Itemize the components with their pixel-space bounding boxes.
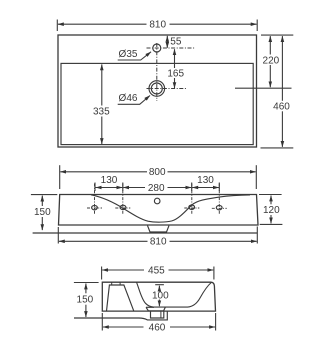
svg-text:165: 165: [167, 69, 184, 80]
label Ø35 leader underline: [118, 52, 151, 60]
dim 460 side: right extension line: [215, 313, 217, 331]
drain outer circle: [149, 81, 165, 97]
dim 455: left line with arrow: [102, 269, 144, 271]
mounting hole 1 ellipse: [92, 205, 98, 209]
tailpipe inner wall: [160, 311, 162, 318]
dim 810 top: left line with arrow: [58, 23, 147, 25]
dim 460 side: left line with arrow: [103, 326, 144, 328]
hole 4 vertical dashed line: [218, 184, 220, 215]
right side top extension line: [261, 34, 293, 36]
drain horizontal dashed centerline: [147, 88, 188, 90]
svg-text:810: 810: [150, 237, 167, 248]
dim 150 front: upper segment with arrow: [41, 196, 43, 206]
dim 120: top extension line: [259, 194, 282, 196]
svg-text:455: 455: [148, 265, 165, 276]
dim 120: lower segment with arrow: [270, 215, 272, 223]
mounting hole 1 crosshair: [87, 207, 102, 209]
dim 220: upper segment with arrow: [269, 36, 271, 54]
hole 1 vertical dashed line: [94, 184, 96, 215]
hole 2 vertical dashed line: [122, 184, 124, 215]
dim 800: right line with arrow: [168, 171, 256, 173]
dim 130 left: line with arrows: [95, 187, 122, 189]
svg-text:100: 100: [152, 291, 169, 302]
svg-text:800: 800: [149, 167, 166, 178]
vertical dashed centerline through holes: [156, 43, 158, 101]
bracket tick 1: [111, 282, 113, 285]
dim 810 top: right line with arrow: [170, 23, 257, 25]
svg-text:150: 150: [34, 207, 51, 218]
dim 150 side: upper segment with arrow: [85, 284, 87, 294]
dim 100: top extension line: [155, 284, 164, 286]
svg-text:130: 130: [197, 175, 214, 186]
basin bowl inner rectangle: [61, 63, 253, 144]
dim 280: tick at left: [122, 183, 124, 192]
drain trapezoid notch: [148, 226, 170, 232]
dim 280: left segment with arrow: [123, 187, 145, 189]
svg-text:150: 150: [77, 295, 94, 306]
overflow hole circle: [154, 198, 160, 204]
dim 810 top: left extension tick: [56, 20, 58, 32]
dim 455: left extension tick: [101, 267, 103, 280]
basin outer rim rectangle: [58, 35, 257, 147]
basin front outline: [59, 195, 259, 226]
svg-text:Ø46: Ø46: [119, 93, 138, 104]
dim 810 front: left extension line: [57, 227, 59, 244]
dim 810 front: right extension line: [256, 227, 258, 244]
drain tailpipe: [151, 311, 164, 318]
svg-text:280: 280: [148, 183, 165, 194]
drain centerline solid extension to right: [235, 87, 292, 89]
drain inner circle: [151, 83, 162, 94]
dim 460 plan: lower segment with arrow: [281, 111, 283, 147]
rear bottom edge line: [33, 232, 258, 234]
dim 130 right: line with arrows: [192, 187, 219, 189]
svg-text:Ø35: Ø35: [119, 49, 138, 60]
mounting hole 4 crosshair: [212, 207, 227, 209]
drain flange trapezoid sides: [146, 307, 165, 311]
dim 455: right line with arrow: [169, 269, 214, 271]
dim 460 side: left extension line: [101, 313, 103, 331]
dim 800: right extension tick: [255, 165, 257, 189]
svg-text:460: 460: [149, 322, 166, 333]
dim 100: upper segment with arrow: [158, 286, 160, 291]
label Ø46 leader underline: [118, 96, 150, 105]
hole 3 vertical dashed line: [191, 184, 193, 215]
dim 55: vertical line with arrows: [166, 36, 168, 48]
bowl front S-curve: [91, 195, 250, 222]
bracket tick 2: [119, 282, 121, 285]
side outline: [102, 282, 215, 311]
dim 150 side: top extension line: [74, 282, 99, 284]
dim 460 side: right line with arrow: [170, 326, 215, 328]
dim 100: lower segment with arrow: [158, 300, 160, 307]
dim 120: upper segment with arrow: [270, 196, 272, 205]
dim 130 right: tick at right: [218, 183, 220, 192]
dim 810 front: right line with arrow: [170, 240, 257, 242]
dim 800: left extension tick: [59, 165, 61, 189]
faucet hole circle: [153, 44, 161, 52]
right side bottom extension line: [261, 147, 294, 149]
bowl section curve: [137, 282, 212, 307]
svg-text:810: 810: [149, 20, 166, 31]
dim 165: lower segment with arrow: [174, 78, 176, 88]
svg-text:130: 130: [101, 175, 118, 186]
svg-text:460: 460: [273, 102, 290, 113]
dim 165: upper segment with arrow: [174, 49, 176, 68]
wall bracket: [107, 285, 134, 311]
dim 335: lower segment with arrow: [101, 117, 103, 145]
dim 150 front: top extension line: [31, 194, 57, 196]
mounting hole 2 ellipse: [120, 205, 126, 209]
dim 810 top: right extension tick: [256, 20, 258, 32]
dim 150 side: lower segment with arrow: [85, 305, 87, 317]
dim 280: right segment with arrow: [168, 187, 192, 189]
faucet horizontal dashed centerline: [147, 47, 196, 49]
mounting hole 2 crosshair: [115, 207, 130, 209]
mounting hole 3 ellipse: [189, 205, 195, 209]
mounting hole 3 crosshair: [184, 207, 199, 209]
dim 335: upper segment with arrow: [101, 64, 103, 105]
rear bottom shroud line: [74, 312, 167, 320]
svg-text:120: 120: [263, 205, 280, 216]
dim 810 front: left line with arrow: [59, 240, 148, 242]
dim 460 plan: upper segment with arrow: [281, 36, 283, 101]
dim 130 left: tick marks: [94, 183, 96, 192]
dim 220: lower segment with arrow: [269, 65, 271, 87]
dim 120: bottom extension line: [260, 223, 283, 225]
dim 150 front: lower segment with arrow: [41, 217, 43, 230]
svg-text:55: 55: [170, 36, 182, 47]
dim 800: left line with arrow: [60, 171, 147, 173]
mounting hole 4 ellipse: [216, 205, 222, 209]
svg-text:335: 335: [93, 107, 110, 118]
dim 280: tick at right: [191, 183, 193, 192]
dim 455: right extension tick: [213, 267, 215, 280]
svg-text:220: 220: [263, 55, 280, 66]
drain flange trapezoid: [146, 306, 154, 308]
